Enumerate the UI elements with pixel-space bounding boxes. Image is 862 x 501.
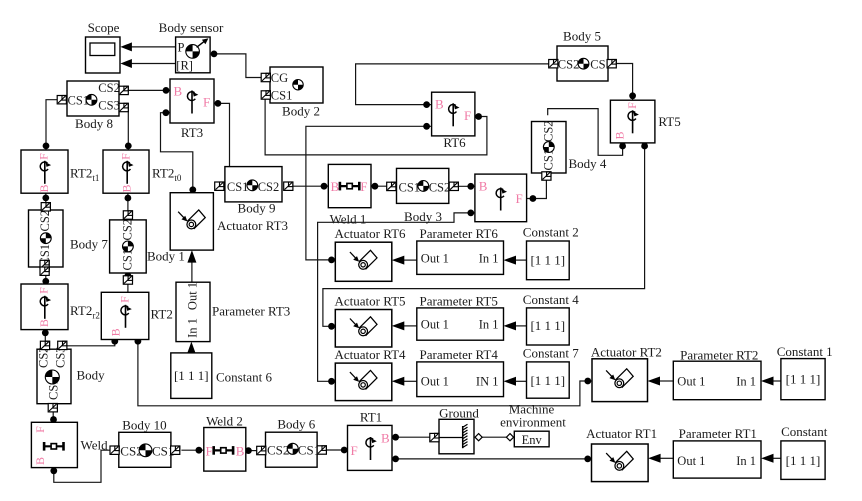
wire Body 6 CS1 to RT1 F — [326, 447, 347, 454]
port Body CS2 top — [40, 341, 49, 349]
svg-text:Scope: Scope — [88, 20, 120, 35]
svg-text:[1 1 1]: [1 1 1] — [786, 453, 821, 468]
svg-text:Weld 1: Weld 1 — [330, 212, 367, 227]
ground block Ground — [439, 405, 480, 454]
port Body 7 bottom — [40, 260, 49, 268]
svg-text:Out 1: Out 1 — [421, 318, 449, 332]
svg-text:B: B — [479, 178, 488, 193]
svg-text:CS2: CS2 — [258, 180, 280, 194]
parameter P2 Parameter RT2 — [673, 348, 761, 400]
constant C4 Constant 4 — [523, 292, 579, 345]
svg-text:In 1: In 1 — [736, 454, 756, 468]
svg-text:Body 3: Body 3 — [404, 209, 442, 224]
svg-text:Body 2: Body 2 — [282, 104, 320, 119]
svg-text:Body 7: Body 7 — [70, 237, 108, 252]
joint RT1 mirrored — [348, 410, 393, 471]
arrow Parameter RT6 to Actuator RT6 — [392, 256, 417, 265]
svg-text:RT2: RT2 — [151, 307, 173, 322]
constant C1 Constant 1 — [777, 344, 833, 400]
svg-text:F: F — [119, 153, 133, 160]
svg-text:environment: environment — [500, 415, 566, 430]
parameter P4 Parameter RT4 — [417, 347, 504, 397]
svg-text:B: B — [174, 84, 183, 99]
port Body 8 CS3 — [119, 103, 128, 111]
svg-text:Parameter RT6: Parameter RT6 — [420, 226, 499, 241]
body B0 Body rotated — [36, 346, 105, 403]
svg-text:In 1: In 1 — [736, 374, 756, 388]
wire RT3 actuator port to Actuator RT3 — [161, 109, 197, 193]
svg-text:CS2: CS2 — [429, 181, 451, 195]
svg-text:CS1: CS1 — [227, 180, 249, 194]
arrow Body sensor P to Scope — [120, 42, 175, 51]
svg-text:Weld: Weld — [81, 438, 109, 453]
parameter P6 Parameter RT6 — [417, 226, 504, 274]
svg-text:Parameter RT4: Parameter RT4 — [420, 347, 499, 362]
svg-text:F: F — [516, 191, 523, 206]
wire RT2r2 B to Body CS2 — [42, 329, 49, 349]
svg-text:Constant 1: Constant 1 — [777, 344, 833, 359]
joint RT2 rotated — [101, 292, 173, 339]
wire RT6 F to Body 2 CS1 — [265, 100, 487, 155]
wire Body 8 CS2 to RT3 B — [128, 87, 170, 94]
port Body 4 CS1 bottom — [542, 172, 551, 180]
wire Weld 1 F to Body 3 CS1 — [371, 183, 391, 190]
svg-text:CS2: CS2 — [38, 210, 52, 232]
wire RT3 F to Body 9 top — [214, 100, 230, 167]
env block Machine environment Env — [500, 402, 566, 447]
parameter P5 Parameter RT5 — [417, 294, 504, 341]
port Body 8 CS1 — [57, 96, 66, 104]
svg-text:Actuator RT5: Actuator RT5 — [334, 294, 405, 309]
svg-text:Body sensor: Body sensor — [159, 20, 224, 35]
svg-text:Body 5: Body 5 — [563, 29, 601, 44]
svg-text:Actuator RT2: Actuator RT2 — [591, 345, 662, 360]
svg-text:RT6: RT6 — [443, 135, 466, 150]
actuator U1 Actuator RT1 — [586, 426, 657, 482]
constant C2 Constant 2 — [523, 225, 579, 280]
wire Body 9 CS2 to Weld 1 B — [292, 183, 329, 190]
svg-text:CG: CG — [271, 71, 288, 85]
wire Ground to Machine environment Env — [482, 436, 507, 438]
port Body CS1 bottom — [48, 404, 57, 412]
port Body 3 CS1 — [387, 182, 396, 190]
wire RT1 actuator port to Actuator RT1 — [392, 456, 592, 463]
wire RT2 B to Body CS3 — [67, 338, 119, 346]
svg-text:Parameter RT3: Parameter RT3 — [212, 304, 290, 319]
arrow Constant 7 to Parameter RT4 — [504, 377, 527, 386]
arrow Parameter RT2 to Actuator RT2 — [648, 377, 674, 386]
svg-text:F: F — [625, 102, 639, 109]
joint RT3 — [170, 79, 214, 140]
port Ground — [430, 433, 439, 441]
wire Body 1 bottom to RT2 F — [125, 272, 132, 292]
wire RT6 actuator port to Actuator RT6 — [306, 123, 432, 263]
svg-text:B: B — [435, 97, 444, 112]
svg-text:Actuator RT3: Actuator RT3 — [217, 218, 288, 233]
body B10 Body 10 — [119, 418, 175, 468]
svg-text:B: B — [109, 328, 123, 336]
port Body 6 CS1 — [317, 446, 326, 454]
body B7 Body 7 rotated — [29, 210, 109, 267]
svg-text:B: B — [331, 179, 340, 194]
svg-text:Out 1: Out 1 — [677, 374, 705, 388]
wire Body 5 CS1 to RT5 F — [616, 64, 636, 101]
wire Body 7 bottom to RT2r2 F — [42, 267, 49, 285]
port Body 10 CS1 — [171, 446, 180, 454]
svg-text:F: F — [36, 153, 50, 160]
svg-text:Parameter RT2: Parameter RT2 — [680, 348, 758, 363]
wire RT2t1 B to Body 7 top — [42, 193, 49, 210]
svg-text:CS2: CS2 — [98, 81, 120, 95]
wire Body 5 CS2 to RT6 B — [356, 64, 550, 108]
joint Weld 2 — [204, 414, 246, 472]
body B9 Body 9 — [225, 167, 282, 216]
svg-text:Out 1: Out 1 — [421, 375, 449, 389]
port Body 8 CS2 — [119, 86, 128, 94]
parameter P Parameter RT3 rotated — [176, 282, 290, 342]
wire Weld B to Body 10 CS2 — [50, 450, 111, 482]
svg-text:Constant 7: Constant 7 — [523, 346, 579, 361]
svg-text:RT5: RT5 — [658, 114, 680, 129]
constant C6 Constant 6 — [171, 353, 273, 399]
svg-text:Actuator RT4: Actuator RT4 — [334, 347, 406, 362]
svg-text:[R]: [R] — [176, 58, 193, 72]
port Body 5 CS2 — [549, 60, 558, 68]
svg-text:In 1: In 1 — [479, 251, 499, 265]
svg-text:F: F — [464, 108, 471, 123]
diamond Ground — [475, 434, 482, 441]
parameter P1 Parameter RT1 — [673, 426, 761, 478]
svg-text:Parameter RT1: Parameter RT1 — [679, 426, 757, 441]
port Body 9 CS1 — [215, 182, 224, 190]
wire RT4 actuator port to Actuator RT4 — [318, 210, 475, 385]
joint RT2t0 rotated — [103, 150, 182, 193]
svg-text:CS2: CS2 — [558, 57, 580, 71]
wire Body 3 CS2 to RT4 B — [457, 183, 475, 190]
port Body 5 CS1 — [607, 60, 616, 68]
wire RT5 B to Body 4 CS2 — [548, 109, 626, 156]
port Body 1 top — [123, 211, 132, 219]
svg-text:F: F — [33, 426, 47, 433]
svg-text:B: B — [381, 430, 390, 445]
wire RT1 B to Ground — [392, 434, 430, 441]
arrow Parameter RT1 to Actuator RT1 — [648, 454, 673, 463]
joint RT2r2 rotated — [21, 284, 100, 330]
actuator U Actuator RT3 — [170, 193, 288, 250]
actuator U6 Actuator RT6 — [334, 226, 406, 281]
svg-text:Body: Body — [77, 368, 106, 383]
wire Body CS1 to Weld F — [50, 404, 57, 423]
svg-text:RT1: RT1 — [360, 410, 382, 425]
arrow Constant 4 to Parameter RT5 — [504, 321, 527, 330]
scope block Scope — [86, 20, 121, 73]
svg-text:[1 1 1]: [1 1 1] — [174, 368, 209, 383]
svg-text:In 1: In 1 — [186, 318, 200, 338]
joint Weld rotated — [31, 422, 108, 467]
joint Weld 1 — [328, 164, 371, 226]
svg-text:Env: Env — [522, 433, 543, 447]
svg-text:RT3: RT3 — [181, 125, 203, 140]
svg-text:B: B — [37, 319, 51, 327]
body B3 Body 3 — [397, 168, 451, 223]
svg-text:F: F — [360, 179, 367, 194]
body B6 Body 6 — [266, 417, 321, 468]
svg-text:Body 10: Body 10 — [122, 418, 166, 433]
wire Body 10 CS1 to Weld 2 F — [181, 447, 203, 454]
joint RT2t1 rotated — [21, 150, 99, 193]
body B5 Body 5 — [557, 29, 612, 82]
svg-text:Weld 2: Weld 2 — [206, 414, 243, 429]
body B1 Body 1 rotated — [110, 219, 185, 273]
svg-text:Constant: Constant — [781, 424, 828, 439]
svg-text:Actuator RT6: Actuator RT6 — [334, 226, 406, 241]
svg-text:B: B — [120, 184, 134, 192]
wire RT2 actuator port to Actuator RT2 — [135, 338, 593, 406]
constant C0 Constant — [781, 424, 828, 480]
svg-text:Constant 6: Constant 6 — [216, 370, 272, 385]
svg-text:Body 6: Body 6 — [277, 417, 315, 432]
svg-text:Ground: Ground — [439, 405, 479, 420]
port Body 3 CS2 — [449, 182, 458, 190]
svg-text:Parameter RT5: Parameter RT5 — [420, 294, 498, 309]
actuator U5 Actuator RT5 — [334, 294, 405, 348]
wire Weld 2 B to Body 6 CS2 — [245, 447, 257, 454]
diamond Env — [506, 434, 513, 441]
svg-text:Out 1: Out 1 — [186, 282, 200, 310]
svg-text:F: F — [351, 443, 358, 458]
svg-text:[1 1 1]: [1 1 1] — [530, 318, 565, 333]
svg-text:CS3: CS3 — [98, 99, 120, 113]
svg-text:[1 1 1]: [1 1 1] — [786, 371, 821, 386]
joint RT5 rotated — [610, 100, 680, 143]
svg-text:Out 1: Out 1 — [677, 454, 705, 468]
port Body 10 CS2 — [110, 446, 119, 454]
svg-text:CS2: CS2 — [121, 219, 135, 241]
wire RT2t0 B to Body 1 top — [125, 193, 132, 220]
svg-text:CS2: CS2 — [542, 120, 556, 142]
port Body 6 CS2 — [257, 446, 266, 454]
wire Body 8 CS1 to RT2t1 F — [43, 100, 58, 151]
port Body 9 CS2 — [284, 182, 293, 190]
arrow Parameter RT4 to Actuator RT4 — [392, 377, 417, 386]
body B2 Body 2 — [270, 67, 323, 119]
svg-text:B: B — [33, 457, 47, 465]
svg-text:Body 4: Body 4 — [569, 156, 607, 171]
svg-text:Constant 4: Constant 4 — [523, 292, 579, 307]
port Body 7 top — [41, 203, 50, 211]
svg-text:B: B — [236, 443, 245, 458]
body B4 Body 4 rotated — [532, 120, 607, 173]
body B8 Body 8 — [67, 81, 120, 131]
arrow Parameter RT3 to Actuator RT3 — [187, 250, 196, 282]
wire Body sensor to Body 2 CG — [211, 51, 262, 78]
svg-text:B: B — [37, 184, 51, 192]
joint RT4 — [475, 174, 527, 222]
wire Body 8 CS3 to RT2t0 F — [125, 108, 132, 151]
actuator U2 Actuator RT2 — [591, 345, 662, 402]
arrow Constant 1 to Parameter RT2 — [761, 377, 781, 386]
arrow Constant 6 to Parameter RT3 — [187, 342, 196, 355]
svg-text:B: B — [613, 131, 627, 139]
port Body 2 CG — [261, 73, 270, 81]
arrow Parameter RT5 to Actuator RT5 — [392, 321, 417, 330]
arrow Body sensor R to Scope — [120, 59, 175, 68]
svg-text:F: F — [117, 296, 131, 303]
svg-text:[1 1 1]: [1 1 1] — [530, 252, 565, 267]
svg-text:CS1: CS1 — [271, 89, 293, 103]
actuator U4 Actuator RT4 — [334, 347, 406, 401]
svg-text:P: P — [178, 40, 185, 54]
wire RT4 F to Body 4 CS1 — [527, 180, 547, 202]
svg-text:Body 8: Body 8 — [75, 116, 113, 131]
svg-text:Constant 2: Constant 2 — [523, 225, 579, 240]
joint RT6 — [432, 92, 475, 150]
svg-text:Out 1: Out 1 — [421, 251, 449, 265]
svg-text:Body 9: Body 9 — [238, 201, 276, 216]
svg-text:In 1: In 1 — [479, 318, 499, 332]
svg-text:Actuator RT1: Actuator RT1 — [586, 426, 657, 441]
arrow Constant 2 to Parameter RT6 — [504, 256, 527, 265]
svg-text:F: F — [206, 443, 213, 458]
svg-text:IN 1: IN 1 — [476, 375, 499, 389]
svg-text:CS1: CS1 — [399, 181, 421, 195]
svg-text:F: F — [203, 94, 210, 109]
wire RT5 actuator port to Actuator RT5 — [323, 143, 648, 330]
arrow Constant to Parameter RT1 — [761, 454, 781, 463]
svg-text:CS2: CS2 — [267, 442, 289, 457]
port Body CS3 top — [58, 341, 67, 349]
port Body 2 CS1 — [261, 91, 270, 99]
svg-text:[1 1 1]: [1 1 1] — [530, 373, 565, 388]
constant C7 Constant 7 — [523, 346, 579, 399]
port Body 1 bottom — [123, 276, 132, 284]
svg-text:F: F — [36, 287, 50, 294]
body sensor U Body sensor — [159, 20, 224, 73]
